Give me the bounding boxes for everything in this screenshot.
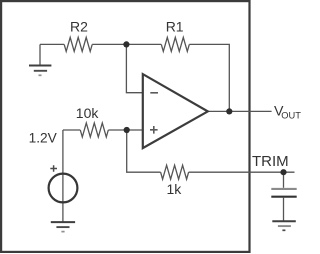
svg-text:1k: 1k	[167, 181, 183, 197]
svg-text:R1: R1	[166, 19, 184, 35]
svg-text:R2: R2	[70, 19, 88, 35]
svg-text:1.2V: 1.2V	[29, 130, 58, 145]
svg-text:TRIM: TRIM	[252, 153, 289, 170]
svg-text:10k: 10k	[76, 105, 100, 121]
svg-text:OUT: OUT	[281, 110, 301, 120]
